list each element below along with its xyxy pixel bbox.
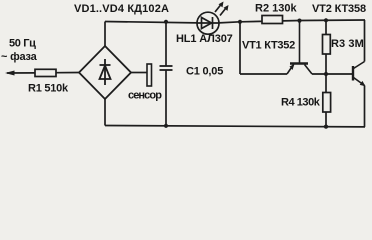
node R3/R4/VT2 base [324,72,328,76]
wire C1 bottom lead [165,70,167,126]
wire R3 bottom lead [325,54,327,74]
diode symbol inside bridge [104,59,106,85]
transistor VT1 [287,21,312,75]
svg-text:VT2 КТ358: VT2 КТ358 [312,3,366,15]
svg-text:R2 130k: R2 130k [255,3,297,15]
wire bridge right corner to sensor plate [131,72,147,74]
transistor VT2 [353,62,365,86]
LED light arrow 1 [215,5,221,13]
resistor R3 [323,35,331,55]
svg-text:R4 130k: R4 130k [281,97,321,109]
node C1 bottom [164,124,168,128]
wire node to VT1 emitter [240,73,287,75]
VT1 base lead [299,21,301,63]
resistor R2 [262,16,283,24]
wire VT2 emitter vertical [364,86,366,127]
svg-text:50 Гц: 50 Гц [9,38,36,50]
VT2 base bar [352,66,354,81]
wire R4 bottom lead [325,112,327,127]
wire bottom rail [105,126,365,127]
wire top-left vertical (rail to bridge top) [104,22,106,47]
svg-text:VT1 КТ352: VT1 КТ352 [242,40,295,52]
LED light arrow 2 [220,8,226,16]
node C1 top [164,20,168,24]
wire C1 top lead [165,22,167,66]
LED HL1 [197,5,226,35]
wire R4 top lead [325,74,327,93]
svg-text:R1 510k: R1 510k [28,83,69,95]
svg-text:R3 3М: R3 3М [331,38,364,50]
diode bridge VD1..VD4 [79,46,131,99]
VT1 collector lead [305,65,313,75]
svg-text:~ фаза: ~ фаза [1,51,38,63]
wire top rail left segment [105,22,197,23]
VT1 emitter lead [287,65,294,75]
svg-text:сенсор: сенсор [128,90,162,102]
input arrow head (to phase) [5,71,15,76]
VT2 emitter lead [354,78,365,86]
wire VT2 collector vertical [364,20,366,62]
wire bottom-left vertical (bridge bottom to rail) [104,99,106,126]
resistor R1 [35,69,56,76]
node LED cathode / R2 left [238,20,242,24]
svg-text:C1 0,05: C1 0,05 [186,65,223,77]
junction node dots [164,18,328,129]
svg-text:VD1..VD4 КД102А: VD1..VD4 КД102А [74,3,169,15]
capacitor C1 plates [160,66,173,70]
wire VT1 collector to VT2 base [312,73,353,75]
node R3 top on rail [324,18,328,22]
VT2 collector lead [354,62,365,69]
node R4 bottom [324,125,328,129]
sensor plate [147,64,152,86]
wire R1 to bridge left corner [56,72,79,74]
node VT1 base on rail [297,19,301,23]
VT1 emitter arrow (PNP, pointing to bar) [290,64,295,70]
VT1 base bar [290,62,308,64]
wire input line (arrow to R1) [7,72,35,74]
svg-text:HL1 АЛ307: HL1 АЛ307 [176,33,233,45]
wire LED-node vertical down [239,22,241,74]
resistor R4 [323,93,331,113]
wire R3 top lead [325,20,327,34]
VT2 emitter arrow (NPN, pointing out) [360,81,366,86]
wire top rail right segment [219,20,365,23]
